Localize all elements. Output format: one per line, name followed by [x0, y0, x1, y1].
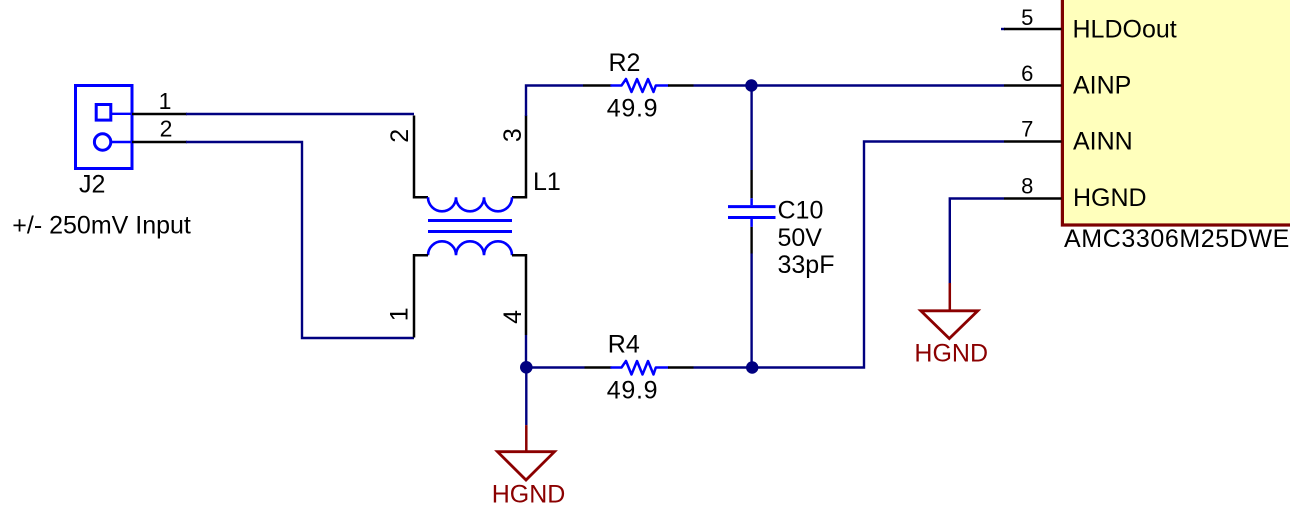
pin 2 of C10 [750, 227, 752, 254]
wire R2 to AINP [694, 84, 1005, 86]
svg-text:49.9: 49.9 [607, 376, 658, 404]
wire L1 pin3 up to R2 row [526, 86, 583, 117]
pin 1 of C10 [750, 170, 752, 198]
transformer L1 secondary winding [428, 241, 512, 255]
pin 5 of U1 [1004, 28, 1062, 30]
wire J2 pin1 to L1 pin2 [186, 113, 414, 115]
svg-text:1: 1 [159, 88, 172, 114]
svg-text:HLDOout: HLDOout [1073, 16, 1177, 44]
junction node AINP [745, 79, 757, 91]
svg-text:49.9: 49.9 [607, 94, 658, 122]
svg-text:8: 8 [1021, 174, 1033, 199]
wire stub at pin 5 [1001, 28, 1005, 30]
wire L1 pin4 to junction [525, 335, 527, 368]
transformer L1 pin 4 lead [512, 255, 526, 335]
svg-text:L1: L1 [533, 168, 561, 196]
svg-text:5: 5 [1021, 5, 1033, 30]
junction node at L1 pin4 [520, 361, 533, 374]
svg-text:50V: 50V [778, 224, 823, 252]
svg-text:AINN: AINN [1073, 127, 1133, 155]
wire pin8 to right HGND [950, 199, 1004, 284]
svg-text:4: 4 [499, 310, 527, 324]
transformer L1 primary winding [428, 197, 512, 211]
ground HGND left [498, 425, 555, 480]
wire left HGND [525, 368, 527, 426]
resistor R4 [612, 361, 669, 375]
wire junction down to C10 [750, 86, 752, 171]
wire R4 to AINN [694, 142, 1005, 368]
svg-text:7: 7 [1021, 116, 1033, 141]
wire J2 pin2 to L1 pin1 [186, 142, 414, 338]
pin 8 of U1 [1004, 197, 1062, 199]
pin 2 of R2 [668, 84, 694, 86]
svg-text:C10: C10 [778, 197, 824, 225]
pin 7 of U1 [1004, 140, 1062, 142]
svg-text:AMC3306M25DWE: AMC3306M25DWE [1064, 225, 1290, 253]
svg-text:3: 3 [499, 128, 527, 142]
transformer L1 core lines [428, 221, 512, 232]
svg-text:+/- 250mV Input: +/- 250mV Input [12, 212, 191, 240]
resistor R2 [612, 79, 669, 92]
svg-text:J2: J2 [79, 171, 105, 199]
svg-text:6: 6 [1021, 61, 1033, 86]
pin 1 of R2 [583, 84, 612, 86]
connector J2 pin 1 square contact [96, 105, 131, 121]
svg-text:R2: R2 [609, 49, 641, 77]
svg-text:HGND: HGND [1073, 184, 1147, 212]
pin 1 of J2 [132, 113, 187, 115]
wire C10 down to R4 row [750, 254, 752, 368]
svg-text:33pF: 33pF [778, 251, 835, 279]
svg-text:1: 1 [386, 307, 414, 321]
wire junction to R4 [526, 366, 584, 368]
capacitor C10 [728, 198, 776, 227]
svg-text:HGND: HGND [914, 340, 988, 368]
pin 2 of J2 [132, 141, 187, 143]
svg-text:2: 2 [386, 129, 414, 143]
IC U1 AMC3306M25DWE body [1062, 0, 1290, 225]
ground HGND right [921, 283, 978, 339]
svg-text:AINP: AINP [1073, 72, 1131, 100]
junction node at C10 bottom [746, 361, 758, 373]
transformer L1 pin 2 lead [414, 116, 428, 198]
pin 6 of U1 [1004, 84, 1062, 86]
transformer L1 pin 3 lead [512, 116, 526, 198]
svg-text:R4: R4 [608, 331, 640, 359]
pin 1 of R4 [585, 366, 612, 368]
svg-text:HGND: HGND [492, 481, 566, 509]
connector J2 body [76, 86, 133, 169]
svg-text:2: 2 [160, 116, 173, 142]
pin 2 of R4 [668, 366, 694, 368]
connector J2 pin 2 round contact [94, 134, 131, 150]
transformer L1 pin 1 lead [414, 255, 428, 337]
